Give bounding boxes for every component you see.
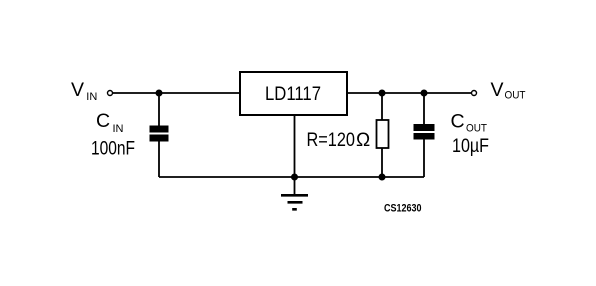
svg-text:C: C: [96, 110, 110, 132]
svg-text:100nF: 100nF: [91, 139, 135, 160]
svg-text:LD1117: LD1117: [265, 84, 321, 105]
svg-text:CS12630: CS12630: [384, 203, 422, 215]
svg-text:Ω: Ω: [356, 130, 370, 151]
svg-text:OUT: OUT: [505, 90, 526, 102]
svg-text:V: V: [491, 79, 504, 101]
svg-text:V: V: [71, 79, 84, 101]
svg-text:IN: IN: [86, 91, 97, 103]
svg-text:10µF: 10µF: [452, 136, 489, 157]
svg-text:OUT: OUT: [466, 123, 487, 135]
svg-text:R=120: R=120: [307, 130, 356, 151]
svg-text:C: C: [451, 111, 465, 133]
svg-text:IN: IN: [113, 123, 124, 135]
